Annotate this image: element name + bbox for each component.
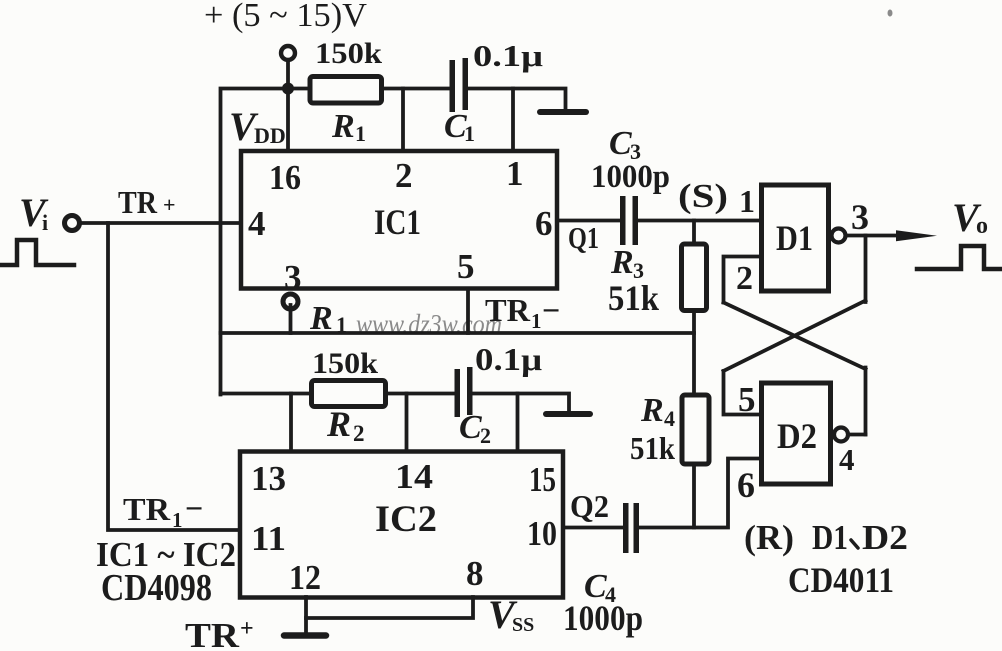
resistor R1 150k [310,77,382,104]
wire pin3 to TR1- rail [289,305,293,333]
arrow output [896,230,937,241]
svg-text:4: 4 [248,204,266,243]
svg-text:R: R [640,392,664,429]
svg-text:+: + [240,616,254,642]
svg-text:1: 1 [355,121,366,146]
capacitor C1 0.1u [450,60,456,112]
D1 bubble [832,229,846,243]
wire R3 to R4 [692,311,696,396]
ground (C2) [546,411,590,417]
ground (C1) [540,109,586,115]
wire pin16 stub [286,89,290,154]
svg-text:IC1: IC1 [374,202,421,242]
svg-text:2: 2 [353,421,365,446]
capacitor C2 0.1u [455,369,461,417]
wire stage2 rail left [221,392,456,396]
output pulse symbol [917,246,1002,269]
svg-text:6: 6 [535,204,553,243]
svg-text:5: 5 [457,247,475,286]
input terminal [65,216,80,231]
wire pin1 stub [511,89,515,154]
wire input branch down [108,223,241,530]
enumeration comma [851,540,858,548]
svg-text:C: C [459,409,482,446]
svg-text:1: 1 [739,183,755,219]
wire Q2 out [563,526,622,530]
svg-text:o: o [976,213,988,239]
svg-text:13: 13 [251,459,286,498]
svg-text:6: 6 [737,465,755,505]
IC U1 (IC1) [241,151,557,289]
svg-text:150k: 150k [312,347,378,380]
svg-text:R: R [331,108,355,145]
svg-text:1: 1 [531,309,542,333]
svg-text:i: i [42,210,48,235]
svg-text:Q2: Q2 [570,488,609,524]
svg-text:C: C [609,125,632,162]
wire R3 column [692,221,696,245]
ground (pin12) [284,632,326,639]
svg-text:51k: 51k [608,278,659,318]
capacitor C3 1000p [620,196,626,245]
wire C4 to pin6 corner [639,459,762,528]
svg-text:TR: TR [123,491,171,527]
wire cross diagonal B [724,301,866,372]
svg-text:5: 5 [738,380,756,419]
wire Q1 out [557,219,620,223]
wire C3 to D1 pin1 [638,219,761,223]
IC U2 (IC2) [240,452,563,598]
svg-text:3: 3 [851,197,869,237]
terminal pin3 [283,294,298,309]
wire TR1- rail [221,331,695,335]
svg-text:2: 2 [736,260,753,297]
svg-text:D2: D2 [862,518,908,557]
wire stage2 rail right of C2 [471,394,569,412]
svg-text:12: 12 [289,558,321,597]
wire pin13 stub [289,394,293,453]
svg-text:CD4098: CD4098 [101,567,212,609]
wire top rail left [221,89,453,395]
svg-text:1000p: 1000p [563,598,643,638]
wire top rail right of C1 [466,89,566,110]
svg-text:16: 16 [269,158,301,197]
wire D1 output [846,234,902,238]
wire R4 to Q2 rail [692,464,696,528]
wire to D2 out up [864,368,868,435]
wire D1 pin2 [724,257,762,303]
svg-text:0.1μ: 0.1μ [475,341,542,377]
capacitor C4 1000p [623,503,629,553]
svg-text:51k: 51k [630,430,675,466]
input pulse symbol [2,240,74,265]
svg-text:2: 2 [395,156,413,195]
node VDD junction dot [282,83,294,95]
svg-text:TR: TR [118,184,158,220]
wire D2 pin5 [724,371,762,415]
svg-text:+: + [163,192,176,217]
wire D1 out down [864,236,868,303]
gate D1 [762,185,829,291]
svg-text:D1: D1 [812,518,848,557]
svg-text:1: 1 [172,508,183,532]
svg-text:TR: TR [485,292,531,328]
wire input to pin4 [80,221,241,225]
svg-text:DD: DD [254,123,286,148]
svg-text:14: 14 [395,457,433,496]
svg-text:15: 15 [529,460,556,499]
svg-text:1: 1 [464,121,475,146]
resistor R4 51k [682,395,709,464]
wire terminal to rail [286,61,290,89]
wire VSS pin8 [306,597,473,618]
svg-text:−: − [542,292,560,328]
svg-text:TR: TR [185,616,240,651]
D2 bubble [834,428,848,442]
resistor R3 51k [682,244,707,311]
wire cross diagonal A [724,303,866,370]
wire pin14 stub [405,394,409,453]
svg-text:SS: SS [512,614,534,636]
svg-text:10: 10 [527,514,557,553]
wire pin5 stub [466,291,470,334]
svg-text:IC2: IC2 [375,499,437,540]
wire pin12 down [304,597,308,633]
ink speck [888,10,893,17]
svg-text:4: 4 [664,406,675,431]
svg-text:−: − [185,490,203,526]
svg-text:+ (5 ~ 15)V: + (5 ~ 15)V [204,0,367,34]
svg-text:11: 11 [251,519,286,558]
wire pin15 stub [516,394,520,453]
svg-text:1: 1 [506,154,524,193]
svg-text:R: R [326,404,351,444]
wire D2 output [848,433,866,437]
supply terminal [281,46,295,60]
svg-text:4: 4 [839,442,855,477]
svg-text:(S): (S) [678,178,728,215]
svg-text:Q1: Q1 [568,220,599,255]
svg-text:CD4011: CD4011 [788,560,894,600]
svg-text:R: R [610,244,634,281]
svg-text:D1: D1 [776,218,813,258]
svg-text:1000p: 1000p [591,159,670,195]
wire pin2 stub [401,89,405,154]
gate D2 [762,383,831,484]
svg-text:0.1μ: 0.1μ [473,38,544,73]
svg-text:(R): (R) [744,518,794,557]
svg-text:3: 3 [284,258,302,297]
svg-text:2: 2 [480,423,491,448]
resistor R2 150k [312,381,386,407]
svg-text:8: 8 [466,554,484,593]
svg-text:D2: D2 [777,416,817,456]
svg-text:150k: 150k [315,37,382,70]
